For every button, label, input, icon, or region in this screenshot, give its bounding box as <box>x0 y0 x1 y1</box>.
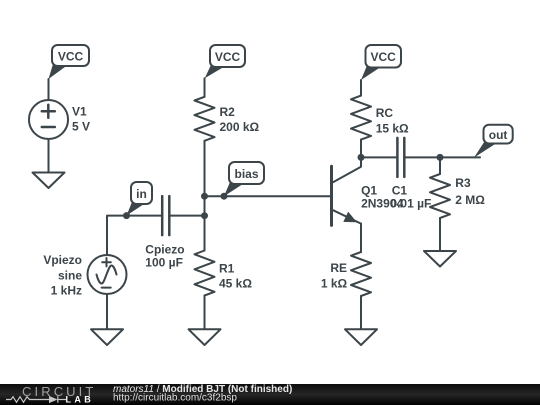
svg-text:2 MΩ: 2 MΩ <box>455 193 485 207</box>
junction (collector node) <box>358 154 365 161</box>
transistor Q1 <box>332 157 362 225</box>
wire <box>107 216 162 255</box>
CircuitLab logo schematic glyph <box>6 396 66 403</box>
wire <box>360 296 362 329</box>
svg-text:100 µF: 100 µF <box>145 256 183 270</box>
svg-text:LAB: LAB <box>66 395 95 405</box>
svg-text:out: out <box>489 128 508 142</box>
svg-text:in: in <box>136 187 147 201</box>
svg-text:0.01 µF: 0.01 µF <box>390 197 431 211</box>
resistor R1 <box>195 251 215 296</box>
ground <box>91 329 123 345</box>
wire <box>360 80 362 96</box>
net label in <box>127 182 153 216</box>
wire <box>439 218 441 251</box>
wire <box>440 156 480 158</box>
footer bar <box>0 384 540 405</box>
svg-text:200 kΩ: 200 kΩ <box>220 120 260 134</box>
wire <box>204 296 206 330</box>
net label bias <box>224 162 264 196</box>
svg-text:1 kHz: 1 kHz <box>51 284 82 298</box>
resistor R2 <box>195 97 215 141</box>
svg-text:Cpiezo: Cpiezo <box>145 243 184 257</box>
wire <box>360 140 362 158</box>
svg-text:VCC: VCC <box>215 50 241 64</box>
ground <box>189 329 221 345</box>
svg-text:sine: sine <box>58 269 82 283</box>
svg-text:R3: R3 <box>455 176 471 190</box>
resistor R3 <box>430 174 450 218</box>
ground <box>424 251 456 267</box>
resistor RC <box>351 96 371 140</box>
svg-text:VCC: VCC <box>58 50 84 64</box>
wire <box>360 224 362 252</box>
ground <box>33 173 65 189</box>
net label VCC (V1 supply) <box>49 45 90 79</box>
junction (bias node) <box>201 193 208 200</box>
svg-text:Vpiezo: Vpiezo <box>43 253 82 267</box>
wire <box>404 156 440 158</box>
svg-text:Q1: Q1 <box>361 184 377 198</box>
wire <box>204 78 206 97</box>
svg-text:http://circuitlab.com/c3f2bsp: http://circuitlab.com/c3f2bsp <box>113 393 237 404</box>
net label VCC (R2 supply) <box>205 45 245 78</box>
svg-text:RC: RC <box>376 106 394 120</box>
node in <box>123 212 130 219</box>
svg-text:bias: bias <box>234 167 258 181</box>
resistor RE <box>351 252 371 296</box>
ground <box>345 329 377 345</box>
svg-text:1 kΩ: 1 kΩ <box>321 276 348 290</box>
wire <box>439 157 441 174</box>
voltage source V1 <box>29 100 68 139</box>
wire <box>170 215 205 217</box>
svg-text:R2: R2 <box>220 105 236 119</box>
wire <box>106 294 108 329</box>
svg-text:R1: R1 <box>219 262 235 276</box>
svg-text:45 kΩ: 45 kΩ <box>219 277 252 291</box>
wire <box>48 139 50 173</box>
capacitor Cpiezo <box>162 196 169 235</box>
junction (out node) <box>437 154 444 161</box>
svg-text:RE: RE <box>330 261 347 275</box>
svg-text:5 V: 5 V <box>72 120 90 134</box>
wire <box>204 141 206 251</box>
net label out <box>474 125 513 158</box>
wire <box>48 79 50 100</box>
net label VCC (RC supply) <box>361 45 401 80</box>
svg-text:C1: C1 <box>392 184 408 198</box>
voltage source Vpiezo <box>88 255 127 294</box>
svg-text:VCC: VCC <box>371 50 397 64</box>
capacitor C1 <box>397 138 404 177</box>
wire (collector to C1) <box>361 156 397 158</box>
junction (input node) <box>201 212 208 219</box>
wire (bias to base) <box>205 195 332 197</box>
node bias <box>221 193 228 200</box>
svg-text:15 kΩ: 15 kΩ <box>376 122 409 136</box>
svg-text:V1: V1 <box>72 105 87 119</box>
